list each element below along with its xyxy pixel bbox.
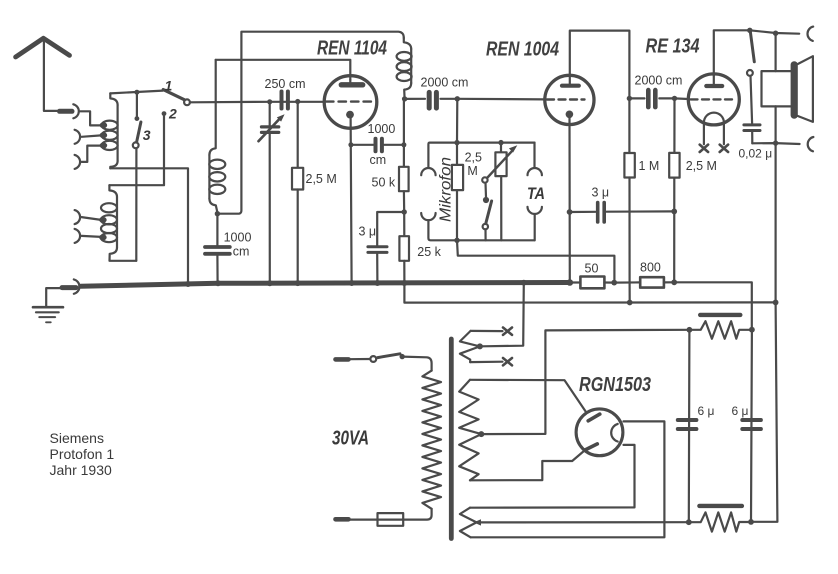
svg-text:6 μ: 6 μ (698, 404, 715, 418)
svg-text:3: 3 (143, 127, 151, 143)
tube RE134 (646, 36, 740, 125)
svg-text:30VA: 30VA (332, 428, 369, 450)
mains switch contact (370, 356, 376, 362)
node filter bottom right (748, 519, 754, 525)
svg-text:cm: cm (370, 153, 387, 167)
heater X mark right (720, 145, 728, 152)
filter left rail (688, 330, 691, 522)
resistor 2,5M mic (452, 143, 482, 241)
node after 250cm (295, 99, 300, 104)
wire primary to fuse (403, 509, 431, 520)
node 2,5M / 3u (671, 209, 677, 215)
wire jack2 to coil tap2 (82, 135, 101, 136)
feedback box wire (217, 32, 403, 214)
filter right rail (750, 330, 753, 522)
wire L1 top to switch1 (110, 91, 163, 94)
wire mic bottom to rail (428, 220, 534, 240)
capacitor 3u cathode bypass (359, 212, 405, 283)
wire heater bottom to X (470, 361, 502, 364)
svg-text:1000: 1000 (368, 122, 396, 136)
wire L1 bottom to ground drop (110, 168, 188, 282)
ground plug (46, 288, 76, 306)
resistor 2,5M grid leak (292, 102, 337, 284)
wire down to switch3 contact (136, 92, 138, 117)
node bottom rail (454, 238, 459, 243)
node choke junction (402, 96, 407, 101)
svg-text:Siemens: Siemens (50, 430, 104, 446)
switch 1 lever (163, 90, 184, 100)
grid wire REN1004 (457, 98, 545, 101)
choke resistor bottom (689, 512, 751, 531)
mains switch node (400, 354, 405, 359)
wire jack3 to coil tap3 (82, 146, 101, 162)
svg-text:1000: 1000 (224, 231, 252, 245)
plate wire RE134 to speaker (714, 30, 799, 75)
variable capacitor (259, 102, 285, 284)
fuse (349, 513, 404, 526)
choke resistor top (689, 321, 752, 339)
wire contact2 to L2 top (109, 114, 164, 186)
capacitor 3u coupling (570, 186, 675, 223)
wire switch to primary (402, 357, 431, 371)
svg-text:2000 cm: 2000 cm (421, 76, 469, 90)
jack socket 4 (75, 210, 81, 224)
node filter bottom left (686, 519, 692, 525)
heater winding 4V (460, 331, 480, 362)
right HT rail (751, 143, 777, 522)
HV centre tap riser (481, 330, 689, 434)
svg-text:1: 1 (165, 78, 173, 94)
grid wire RE134 (675, 97, 689, 100)
anode 2 wire (470, 451, 585, 481)
capacitor 6u left (678, 404, 715, 429)
bus junction dots (185, 280, 407, 287)
mic return wire to bus (457, 240, 614, 282)
switch 3 top contact (135, 116, 140, 121)
tube REN1104 (317, 38, 387, 129)
node return / 1M drop (627, 300, 633, 306)
heater X mark bottom (503, 358, 512, 365)
svg-text:RGN1503: RGN1503 (579, 374, 651, 396)
filament wire A (471, 421, 665, 537)
wire heater top to X (471, 330, 503, 332)
mains plug top (336, 357, 349, 362)
svg-text:REN 1004: REN 1004 (486, 39, 559, 61)
TA jack bottom (528, 207, 542, 214)
node grid REN1004 (455, 96, 460, 101)
svg-text:2,5 M: 2,5 M (306, 172, 337, 186)
title text (50, 430, 115, 478)
wire jack5 to coil tap (82, 236, 101, 237)
jack socket 3 (75, 155, 81, 169)
transformer primary (422, 371, 441, 509)
HF choke (397, 38, 412, 99)
svg-text:800: 800 (640, 261, 661, 275)
potentiometer (488, 143, 518, 241)
choke resistor top bar (700, 313, 740, 317)
jack socket 2 (75, 130, 81, 144)
switch 3 lever (137, 122, 141, 142)
heater X mark top (503, 328, 512, 335)
HV secondary winding (459, 380, 481, 481)
svg-text:3 μ: 3 μ (592, 186, 610, 200)
svg-text:2,5 M: 2,5 M (686, 159, 717, 173)
antenna (16, 38, 70, 111)
wire TA bottom to rail (534, 214, 536, 240)
wire grid node to mic rail (456, 99, 458, 143)
plate wire REN1004 (570, 31, 630, 99)
svg-text:TA: TA (527, 184, 545, 203)
node before 250cm (267, 99, 272, 104)
wire jack4 to coil tap (82, 217, 101, 220)
wire switch3 to L2 bottom (135, 148, 137, 260)
svg-text:50 k: 50 k (372, 176, 396, 190)
svg-text:0,02 μ: 0,02 μ (739, 147, 773, 161)
mains plug bottom (336, 517, 349, 522)
node bus end (567, 279, 574, 286)
wire TA top to rail (533, 143, 535, 168)
ground (33, 307, 63, 322)
RE134 filament legs (704, 123, 724, 145)
wire 1M junction drop (628, 282, 630, 302)
cathode wire REN1004 (568, 114, 570, 282)
coil L1 (aerial coupling, upper) (101, 93, 118, 168)
node cathode / 3u (567, 209, 573, 215)
svg-text:cm: cm (233, 245, 250, 259)
HT return line (404, 283, 775, 302)
switch 1 contact (184, 99, 190, 105)
wire jack1 to coil tap1 (80, 111, 101, 125)
coil L2 (aerial coupling, lower) (100, 185, 136, 261)
capacitor 250cm (265, 77, 306, 109)
filament tap arrow (474, 519, 481, 525)
tube REN1004 (486, 39, 594, 125)
node filter top left (687, 327, 693, 333)
resistor 2,5M RE134 grid (669, 98, 717, 282)
mic/TA top rail (428, 143, 534, 168)
transformer core (449, 339, 454, 539)
node right rail / return line (773, 300, 779, 306)
node bus heater tap (521, 280, 527, 286)
node 2000cm left (627, 96, 632, 101)
mic jack top (421, 168, 435, 175)
svg-text:6 μ: 6 μ (732, 404, 749, 418)
speaker jack bottom (808, 137, 814, 151)
node grid RE134 (672, 96, 677, 101)
resistor 50k feed (372, 99, 409, 212)
svg-text:2: 2 (168, 106, 177, 122)
node 50k/25k (402, 209, 407, 214)
wire 800 to filter (674, 282, 752, 329)
choke resistor bottom bar (699, 504, 742, 508)
svg-text:2,5: 2,5 (465, 151, 482, 165)
tube RGN1503 (576, 374, 651, 456)
RGN filament winding (460, 508, 477, 538)
wire bus to heater tap (482, 283, 524, 347)
node mic rail / pot (498, 140, 503, 145)
node speaker top (773, 31, 778, 36)
jack socket 1 (73, 104, 79, 118)
svg-text:2000 cm: 2000 cm (635, 74, 683, 88)
speaker switch lever (750, 32, 754, 62)
ground bus (81, 283, 570, 287)
switch 3 moving contact (133, 142, 139, 148)
node at switch3 top feed (134, 90, 139, 95)
resistor 800 (614, 261, 674, 288)
svg-text:REN 1104: REN 1104 (317, 38, 387, 60)
mains switch lever (378, 354, 400, 358)
node heater tap (477, 343, 483, 349)
resistor 50 (570, 262, 614, 289)
svg-text:1 M: 1 M (639, 159, 660, 173)
loudspeaker (762, 33, 813, 143)
heater X mark left (700, 145, 708, 152)
filament tap wire (480, 521, 689, 523)
svg-text:Jahr 1930: Jahr 1930 (50, 462, 112, 478)
capacitor 2000cm coupling 2 (629, 74, 682, 108)
resistor 1M (624, 98, 659, 282)
svg-text:Protofon 1: Protofon 1 (50, 446, 115, 462)
speaker switch contact (747, 70, 753, 76)
capacitor 0,02u (739, 76, 773, 161)
speaker jack top (807, 27, 813, 41)
ground jack socket (74, 279, 80, 293)
tuning coil (209, 60, 225, 212)
svg-text:25 k: 25 k (417, 245, 441, 259)
capacitor 1000cm cathode (351, 122, 404, 167)
svg-text:RE 134: RE 134 (646, 36, 700, 58)
anode 1 wire (470, 380, 587, 413)
grid wire REN1104 (190, 101, 324, 104)
node speaker switch (747, 28, 752, 33)
svg-text:3 μ: 3 μ (359, 225, 377, 239)
mic jack bottom (421, 213, 435, 220)
node 800 right (671, 279, 677, 285)
node mic rail / 2.5M (454, 140, 459, 145)
jack socket 5 (75, 229, 81, 243)
node cathode / 1000cm (348, 142, 353, 147)
mic switch (482, 177, 491, 240)
node filter top right (749, 327, 755, 333)
node coil bottom (215, 211, 220, 216)
svg-text:250 cm: 250 cm (265, 77, 306, 91)
resistor 25k (399, 212, 441, 283)
filament wire B (470, 445, 635, 508)
capacitor 6u right (732, 404, 761, 429)
switch contact 2 (162, 111, 167, 116)
node speaker bottom (773, 140, 778, 145)
capacitor 1000cm tuning (205, 214, 251, 284)
speaker bottom wire (752, 142, 799, 145)
node HV centre tap (478, 431, 484, 437)
capacitor 2000cm coupling 1 (405, 76, 469, 109)
TA jack top (528, 168, 542, 175)
cathode wire REN1104 (351, 115, 352, 283)
wire to mains switch (349, 358, 371, 360)
svg-text:M: M (467, 164, 477, 178)
svg-text:50: 50 (585, 262, 599, 276)
node 50/800 mic return (611, 280, 617, 286)
anode rail REN1104 (216, 60, 351, 80)
antenna plug (60, 109, 73, 114)
